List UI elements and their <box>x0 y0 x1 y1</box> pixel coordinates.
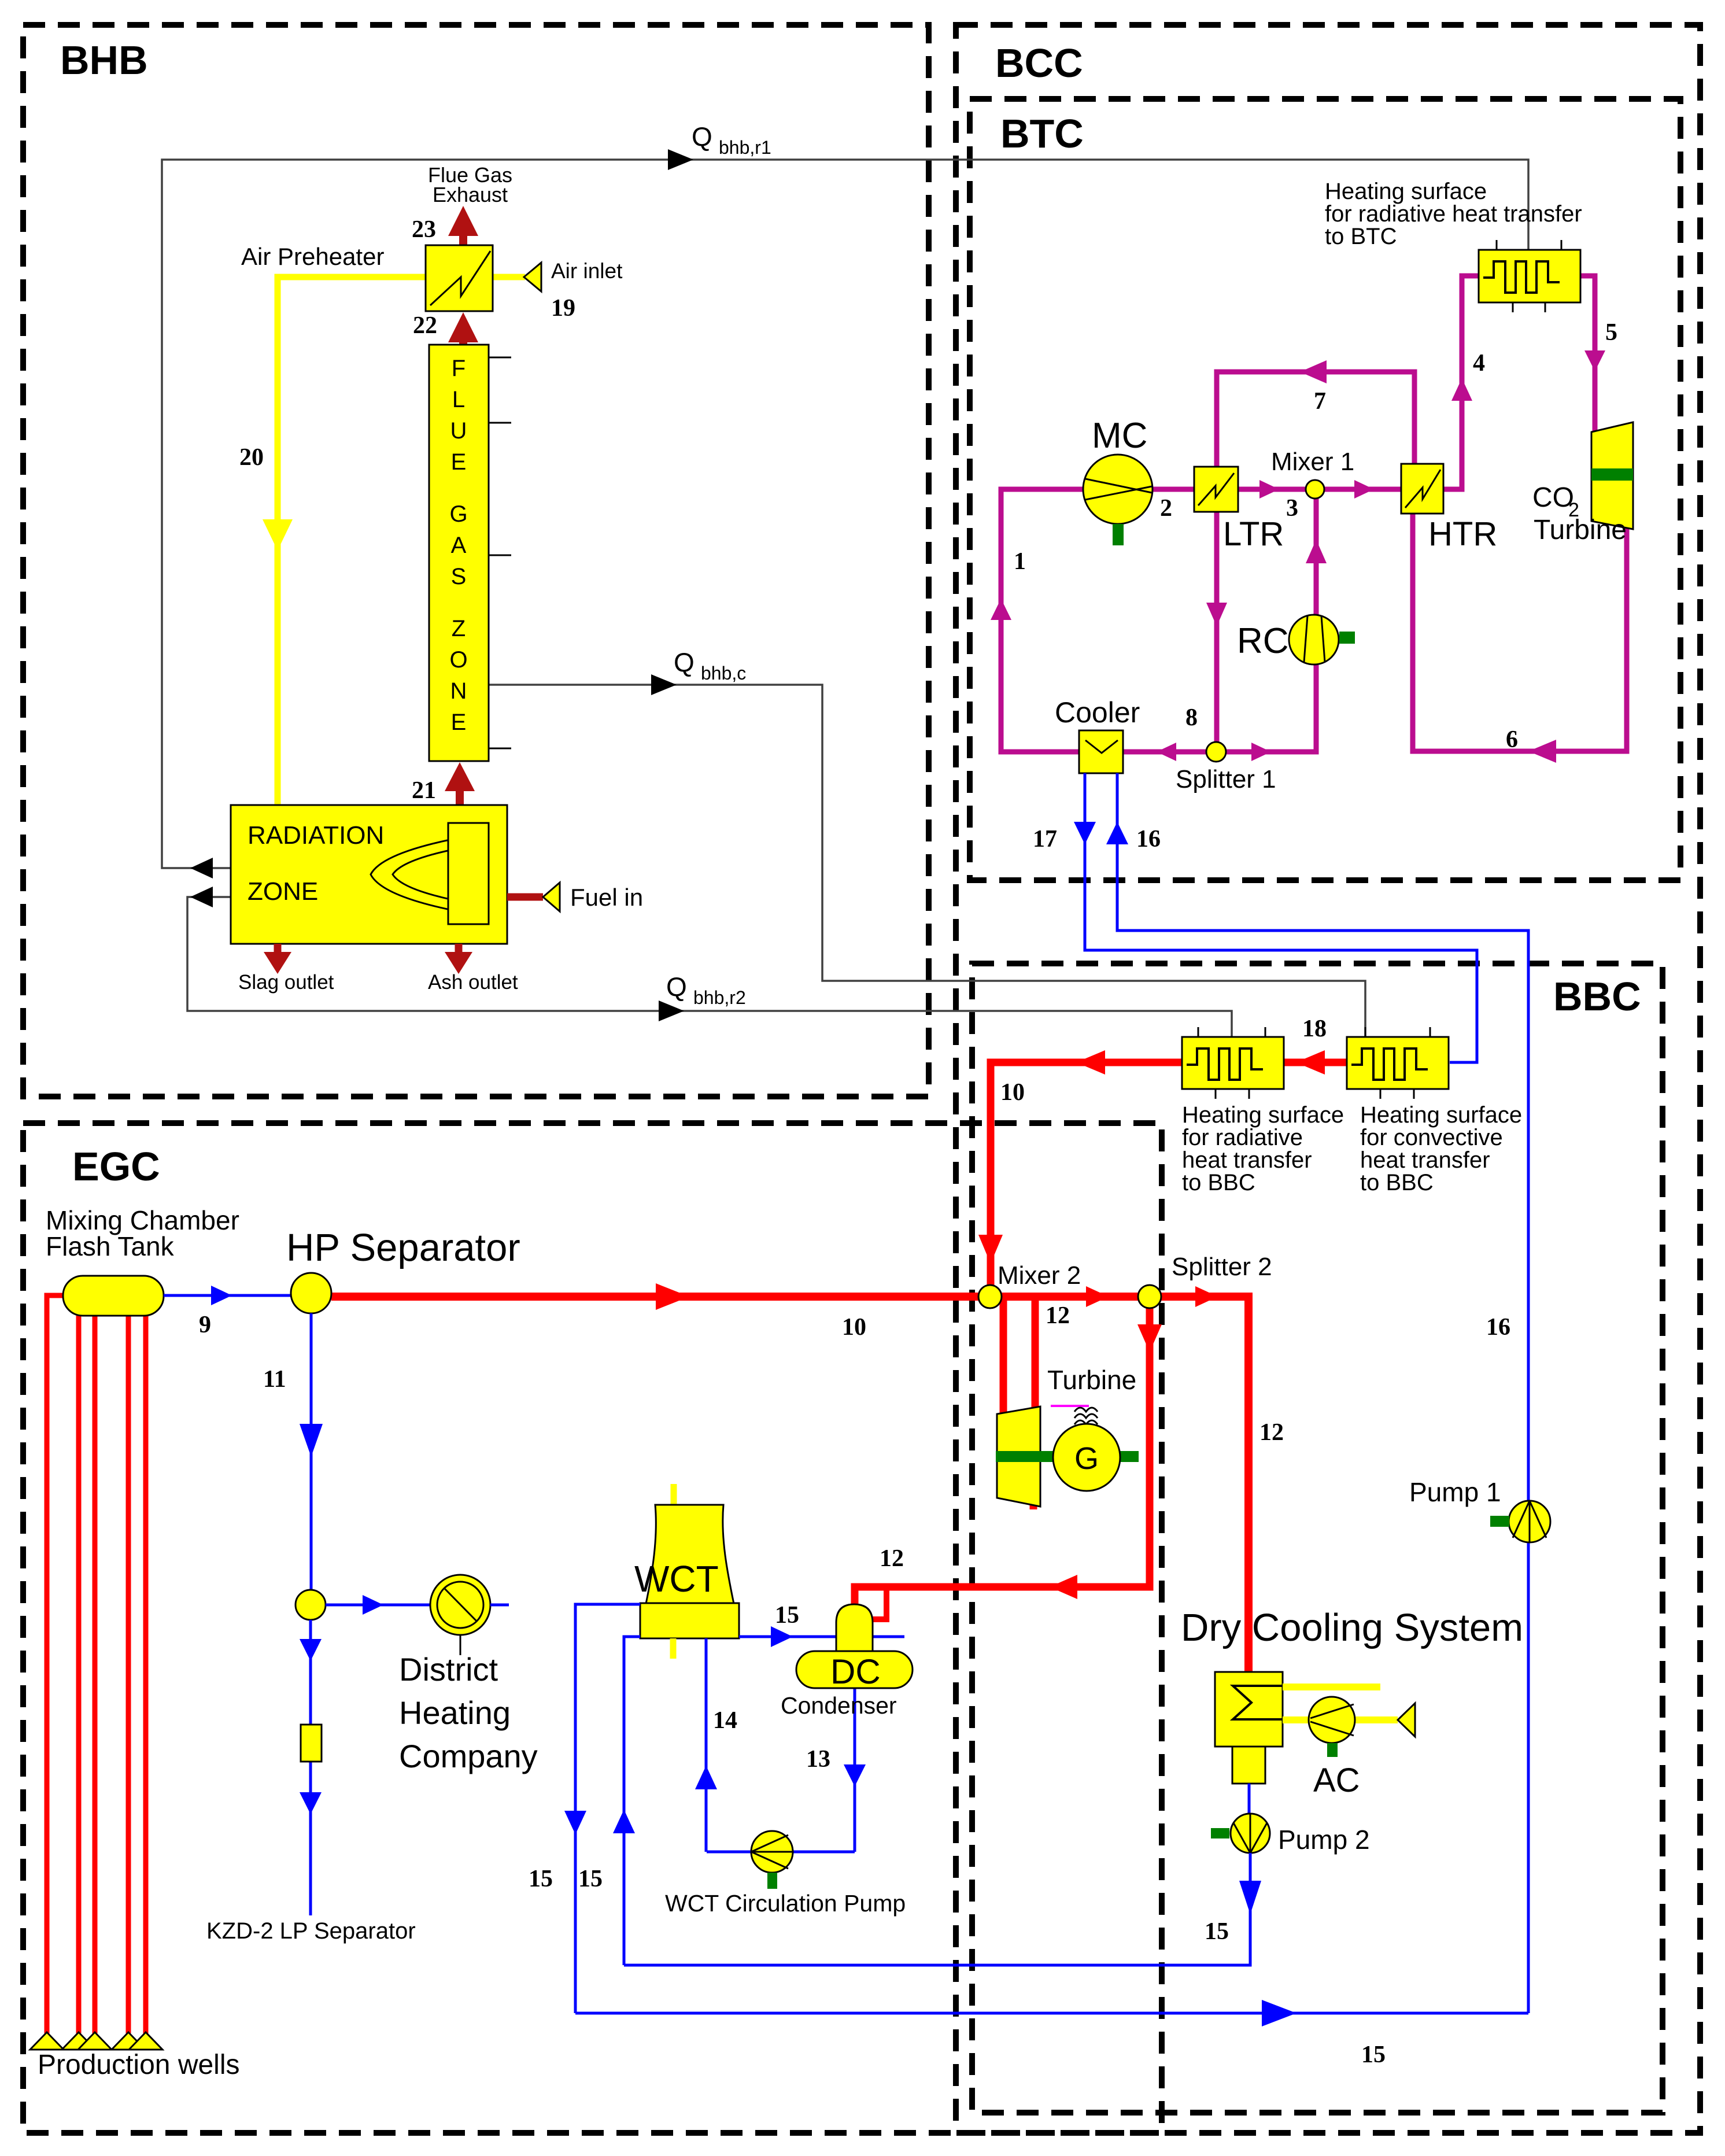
svg-text:15: 15 <box>1205 1918 1229 1945</box>
arrowhead 12 down <box>1137 1324 1162 1352</box>
cooler <box>1079 730 1123 773</box>
wire splitter1 to RC <box>1226 665 1316 752</box>
arrowhead Q_bhb,r1 rightward <box>668 149 693 170</box>
wire 12 splitter2 to DC condenser (red) <box>855 1307 1150 1607</box>
svg-text:Q: Q <box>666 972 687 1002</box>
svg-text:9: 9 <box>199 1312 211 1338</box>
svg-text:to BTC: to BTC <box>1325 224 1397 249</box>
svg-text:12: 12 <box>880 1545 904 1572</box>
arrowhead main red 3 <box>1195 1286 1218 1307</box>
svg-text:WCT: WCT <box>634 1558 719 1600</box>
svg-text:Splitter 2: Splitter 2 <box>1172 1253 1272 1281</box>
svg-text:U: U <box>450 418 467 444</box>
svg-text:G: G <box>449 501 467 527</box>
wire 5 heating surface to CO2 turbine <box>1580 276 1595 438</box>
wire 1 cooler to MC (magenta) <box>1001 489 1084 752</box>
wire 11 HP separator down (blue) <box>310 1313 313 1591</box>
wire 10 radiative surface to Mixer 2 (red) <box>991 1062 1182 1286</box>
flue gas zone column <box>429 345 489 761</box>
arrowhead Q_bhb,r2 rightward <box>659 1001 684 1021</box>
wire 15 return into WCT (blue) <box>624 1637 640 1965</box>
arrowhead 9 right <box>211 1286 232 1305</box>
wire 9 tank to HP separator (blue) <box>164 1294 292 1297</box>
burner flame <box>371 833 489 917</box>
svg-text:bhb,r2: bhb,r2 <box>693 987 746 1008</box>
arrowhead 18 left <box>1296 1050 1325 1075</box>
arrowhead 15 down at WCT <box>564 1811 586 1834</box>
svg-text:RADIATION: RADIATION <box>248 821 384 850</box>
dry cooler <box>1215 1672 1283 1747</box>
svg-text:11: 11 <box>263 1366 286 1393</box>
svg-text:21: 21 <box>412 777 436 804</box>
wire hot air out (yellow) <box>1283 1684 1380 1690</box>
WCT tower <box>646 1505 734 1604</box>
pump Pump 2 <box>1231 1814 1270 1853</box>
RC motor stub <box>1339 632 1355 644</box>
wire valve outlet stub (blue) <box>490 1604 509 1607</box>
ash outlet arrow <box>445 944 472 974</box>
arrowhead 11 down <box>300 1424 323 1457</box>
fuel in triangle <box>543 883 560 911</box>
svg-text:LTR: LTR <box>1223 515 1284 553</box>
wire 7 HTR top to LTR top <box>1217 372 1414 467</box>
dashed box EGC <box>23 1123 1162 2133</box>
arrowhead 3 up <box>1306 540 1327 563</box>
turbine BBC <box>997 1406 1040 1507</box>
KZD restriction symbol <box>301 1725 322 1762</box>
svg-text:for radiative heat transfer: for radiative heat transfer <box>1325 201 1582 227</box>
svg-text:S: S <box>451 564 467 589</box>
svg-text:16: 16 <box>1486 1314 1510 1341</box>
production well head 3 <box>78 2032 112 2050</box>
arrowhead 13 down <box>844 1764 866 1786</box>
flue gas zone letters <box>449 356 467 735</box>
arrowhead 20 down (yellow) <box>263 519 293 551</box>
compressor RC <box>1289 615 1339 664</box>
svg-text:4: 4 <box>1473 350 1485 376</box>
svg-text:10: 10 <box>842 1314 866 1341</box>
svg-text:20: 20 <box>239 444 264 471</box>
air inlet triangle <box>524 263 541 291</box>
wire DC outlet stub (blue) <box>873 1636 904 1638</box>
wire 17 cooler to convective heating surface (blue) <box>1085 773 1477 1062</box>
svg-text:19: 19 <box>551 295 575 322</box>
production well head 4 <box>112 2032 145 2050</box>
svg-text:heat transfer: heat transfer <box>1360 1147 1490 1173</box>
wire 15 WCT to pump1 riser (blue) <box>575 2012 1528 2015</box>
arrowhead 8 down <box>1206 603 1227 626</box>
svg-text:5: 5 <box>1605 319 1617 346</box>
svg-text:EGC: EGC <box>72 1144 160 1189</box>
radiation zone <box>231 805 507 944</box>
arrowhead 7 left <box>1300 360 1327 383</box>
wire 6 turbine exhaust to HTR <box>1413 514 1627 751</box>
svg-text:18: 18 <box>1302 1016 1327 1042</box>
svg-text:Turbine: Turbine <box>1047 1365 1136 1395</box>
svg-text:3: 3 <box>1286 495 1298 522</box>
svg-text:L: L <box>452 387 465 412</box>
AC motor stub <box>1327 1743 1338 1757</box>
WCT basin <box>640 1603 739 1638</box>
dashed box BBC <box>972 963 1663 2113</box>
node Splitter 1 <box>1206 742 1226 762</box>
svg-text:Company: Company <box>399 1738 538 1774</box>
svg-text:MC: MC <box>1092 416 1147 456</box>
district heating valve <box>430 1575 490 1635</box>
arrowhead 6 left <box>1528 740 1556 763</box>
svg-text:Slag outlet: Slag outlet <box>238 971 334 994</box>
arrowhead 10 left <box>1076 1050 1105 1075</box>
svg-text:Turbine: Turbine <box>1534 515 1627 545</box>
wire production well 3 (red) <box>93 1316 98 2033</box>
arrowhead 15 up at WCT <box>613 1810 635 1833</box>
dry cooler lower stub box <box>1232 1747 1265 1784</box>
node HP separator <box>291 1273 331 1313</box>
dashed box BCC <box>956 25 1700 2133</box>
arrowhead toward RC <box>1251 743 1271 761</box>
arrowhead 14 up <box>695 1766 717 1789</box>
node Mixer 1 <box>1306 480 1324 499</box>
svg-text:HTR: HTR <box>1428 515 1497 553</box>
heating surface for radiative heat transfer to BTC <box>1479 240 1580 312</box>
arrowhead 10 down <box>978 1235 1003 1264</box>
wire Q_bhb,c <box>489 685 1365 1037</box>
arrowhead Q_bhb,r1 into radiation zone <box>190 858 213 878</box>
node Mixer 2 <box>978 1285 1002 1308</box>
svg-text:BHB: BHB <box>60 38 148 83</box>
WCT pump motor stub <box>767 1873 777 1889</box>
svg-text:Splitter 1: Splitter 1 <box>1176 765 1276 793</box>
svg-text:13: 13 <box>806 1746 830 1773</box>
wire Q_bhb,r1 <box>162 160 1528 868</box>
wire Mixer1 to HTR <box>1324 487 1401 492</box>
svg-text:F: F <box>452 356 466 381</box>
wire production well 5 (red) <box>143 1316 149 2033</box>
turbine exhaust stub <box>1030 1502 1037 1509</box>
wire 12 turbine second connection (red) <box>1032 1297 1039 1408</box>
svg-text:A: A <box>451 533 467 558</box>
svg-text:RC: RC <box>1237 621 1289 661</box>
wire 13 DC condenser down (blue) <box>854 1688 856 1852</box>
arrowhead 16 up <box>1106 822 1128 844</box>
arrowhead to valve <box>363 1595 383 1615</box>
generator shaft (green) <box>996 1451 1139 1462</box>
svg-text:Heating: Heating <box>399 1694 511 1731</box>
svg-text:Dry Cooling System: Dry Cooling System <box>1181 1606 1523 1649</box>
svg-text:15: 15 <box>775 1602 799 1629</box>
ticks on flue gas zone <box>489 357 511 748</box>
arrowhead 1 up <box>991 599 1011 620</box>
turbine CO2 <box>1591 422 1633 529</box>
production well head 2 <box>62 2032 95 2050</box>
fuel in wire <box>507 894 543 901</box>
Pump 2 motor stub <box>1211 1828 1229 1838</box>
dashed box BTC <box>970 99 1680 880</box>
arrowhead into mixer1 <box>1259 480 1279 499</box>
svg-text:Q: Q <box>674 647 695 677</box>
svg-text:BCC: BCC <box>995 40 1083 86</box>
svg-text:2: 2 <box>1160 495 1172 522</box>
svg-text:WCT Circulation Pump: WCT Circulation Pump <box>665 1890 906 1917</box>
svg-text:bhb,c: bhb,c <box>701 663 746 684</box>
air triangle at AC <box>1398 1703 1415 1737</box>
svg-text:to BBC: to BBC <box>1182 1170 1255 1195</box>
svg-text:22: 22 <box>413 312 437 339</box>
wire 14 WCT basin down (blue) <box>705 1638 708 1852</box>
svg-text:Cooler: Cooler <box>1055 696 1140 729</box>
flash tank <box>63 1276 164 1316</box>
svg-text:6: 6 <box>1506 726 1518 753</box>
svg-text:Exhaust: Exhaust <box>433 183 508 206</box>
wire junction to district valve (blue) <box>326 1604 430 1607</box>
wire splitter1 to cooler <box>1123 750 1206 755</box>
DC condenser dome <box>836 1604 873 1653</box>
svg-text:Production wells: Production wells <box>38 2050 240 2080</box>
svg-text:1: 1 <box>1014 548 1026 575</box>
generator coil symbol <box>1074 1408 1098 1424</box>
svg-text:bhb,r1: bhb,r1 <box>719 137 771 158</box>
arrowhead 15 right <box>1262 2000 1296 2026</box>
arrowhead 15 down <box>1239 1881 1261 1914</box>
svg-text:District: District <box>399 1651 498 1688</box>
svg-text:for radiative: for radiative <box>1182 1125 1303 1150</box>
svg-text:12: 12 <box>1259 1419 1284 1446</box>
Pump 1 motor stub <box>1490 1516 1509 1527</box>
svg-text:G: G <box>1074 1441 1099 1476</box>
wire 16 pump1 riser to cooler (blue) <box>1117 773 1528 2013</box>
heat exchanger HTR <box>1401 464 1443 514</box>
svg-text:heat transfer: heat transfer <box>1182 1147 1312 1173</box>
arrowhead down to KZD 1 <box>300 1639 322 1661</box>
svg-text:BTC: BTC <box>1000 111 1084 156</box>
arrowhead 5 down <box>1584 350 1605 371</box>
svg-text:10: 10 <box>1000 1079 1025 1106</box>
arrowhead main red 2 <box>1086 1286 1109 1307</box>
wire 18 convective to radiative heating surface (red) <box>1284 1059 1347 1066</box>
svg-text:23: 23 <box>412 216 436 243</box>
wire 15 WCT outlet down (blue) <box>575 1604 640 2013</box>
production well head 5 <box>129 2032 162 2050</box>
svg-text:15: 15 <box>1361 2041 1386 2068</box>
svg-text:Air Preheater: Air Preheater <box>241 243 384 270</box>
DC condenser vent zigzag (red) <box>871 1590 886 1619</box>
arrowhead 4 up <box>1451 378 1472 401</box>
flue gas arrow 23 <box>448 206 478 245</box>
svg-text:DC: DC <box>830 1652 881 1691</box>
svg-text:Z: Z <box>452 616 466 641</box>
svg-text:Fuel in: Fuel in <box>570 884 643 911</box>
svg-text:8: 8 <box>1185 704 1198 731</box>
arrowhead Q_bhb,c rightward <box>651 674 677 695</box>
svg-text:ZONE: ZONE <box>248 877 318 906</box>
wire 15 WCT to DC condenser (blue) <box>739 1636 837 1638</box>
arrowhead Q_bhb,r2 into radiation zone <box>190 887 213 907</box>
pump WCT circulation <box>751 1831 793 1873</box>
MC motor stub <box>1113 524 1124 545</box>
node Splitter 2 <box>1138 1285 1161 1308</box>
slag outlet arrow <box>264 944 291 974</box>
generator field line (magenta) <box>1051 1405 1089 1407</box>
svg-text:12: 12 <box>1046 1302 1070 1329</box>
arrowhead main red 1 <box>656 1283 689 1310</box>
wire LTR to Mixer1 <box>1238 487 1306 492</box>
generator G <box>1053 1424 1120 1491</box>
wire dry cooler to pump2 (blue) <box>1248 1784 1251 1815</box>
wire production well 2 (red) <box>76 1316 82 2033</box>
heating surface for radiative heat transfer to BBC <box>1182 1027 1284 1099</box>
svg-text:Pump 1: Pump 1 <box>1409 1477 1501 1507</box>
wire 2 MC to LTR <box>1153 487 1194 492</box>
svg-text:N: N <box>450 678 467 704</box>
svg-text:Mixer 2: Mixer 2 <box>998 1261 1081 1290</box>
wire 19 air inlet (yellow) <box>493 274 525 280</box>
heating surface for convective heat transfer to BBC <box>1347 1027 1449 1099</box>
flue gas arrow 21 <box>445 762 475 805</box>
wire production well 4 (red) <box>126 1316 131 2033</box>
wire 4 HTR to BTC heating surface <box>1443 276 1479 489</box>
svg-text:15: 15 <box>578 1866 603 1892</box>
wire 20 air from preheater to radiation zone (yellow) <box>278 277 426 805</box>
svg-text:Ash outlet: Ash outlet <box>428 971 518 994</box>
svg-text:BBC: BBC <box>1553 974 1641 1019</box>
fan AC <box>1309 1697 1355 1743</box>
arrowhead 15 right to DC <box>771 1626 793 1647</box>
wire 11b junction down to KZD (blue) <box>309 1620 312 1915</box>
arrowhead 12 left <box>1050 1575 1077 1599</box>
svg-text:Air inlet: Air inlet <box>551 259 623 283</box>
svg-text:E: E <box>451 710 467 735</box>
wire air in through AC fan (yellow) <box>1283 1716 1398 1723</box>
svg-text:17: 17 <box>1033 826 1057 852</box>
wire 15 pump2 to WCT (blue) <box>624 1853 1250 1965</box>
svg-text:Pump 2: Pump 2 <box>1278 1825 1370 1855</box>
pump Pump 1 <box>1509 1501 1550 1542</box>
wire 8 LTR down to splitter1 <box>1214 512 1220 743</box>
svg-text:Mixer 1: Mixer 1 <box>1271 448 1354 476</box>
svg-text:Q: Q <box>692 121 712 152</box>
svg-text:HP Separator: HP Separator <box>286 1226 520 1269</box>
WCT tower stub top (yellow) <box>671 1484 677 1506</box>
svg-text:14: 14 <box>713 1707 737 1734</box>
wire pump loop bottom (blue) <box>707 1851 855 1854</box>
svg-text:Condenser: Condenser <box>781 1692 897 1719</box>
DC condenser body <box>796 1651 913 1688</box>
svg-text:7: 7 <box>1314 388 1326 415</box>
flue gas arrow 22 <box>448 312 478 345</box>
arrowhead 17 down <box>1074 822 1096 844</box>
svg-text:Flash Tank: Flash Tank <box>46 1231 175 1261</box>
svg-text:Heating surface: Heating surface <box>1182 1102 1344 1128</box>
svg-text:to BBC: to BBC <box>1360 1170 1434 1195</box>
burner rect <box>448 823 489 924</box>
wire 3 RC to Mixer1 <box>1314 497 1319 615</box>
compressor MC <box>1083 455 1153 524</box>
heat exchanger LTR <box>1194 467 1238 512</box>
svg-text:for convective: for convective <box>1360 1125 1503 1150</box>
arrowhead into HTR <box>1354 480 1374 499</box>
dashed box BHB <box>23 25 929 1097</box>
node district junction <box>295 1590 326 1620</box>
air preheater <box>426 245 493 311</box>
svg-text:O: O <box>449 647 467 673</box>
WCT stub below (yellow) <box>670 1638 677 1659</box>
wire turbine inlet from Mixer 2 (red) <box>1000 1297 1007 1415</box>
wire main steam line HP separator to dry cooler (red) <box>331 1297 1248 1672</box>
svg-text:Heating surface: Heating surface <box>1360 1102 1522 1128</box>
arrowhead down to KZD 2 <box>300 1792 322 1814</box>
arrowhead toward cooler <box>1157 743 1176 761</box>
wire production well 1 (red) <box>47 1295 63 2033</box>
svg-text:KZD-2 LP Separator: KZD-2 LP Separator <box>206 1918 416 1944</box>
wire Q_bhb,r2 <box>187 897 1232 1037</box>
svg-text:E: E <box>451 449 467 475</box>
production well head 1 <box>30 2032 64 2050</box>
svg-text:Heating surface: Heating surface <box>1325 179 1487 204</box>
svg-text:15: 15 <box>529 1866 553 1892</box>
svg-text:16: 16 <box>1136 826 1161 852</box>
svg-text:AC: AC <box>1313 1762 1360 1799</box>
valve label leader line <box>460 1635 461 1655</box>
